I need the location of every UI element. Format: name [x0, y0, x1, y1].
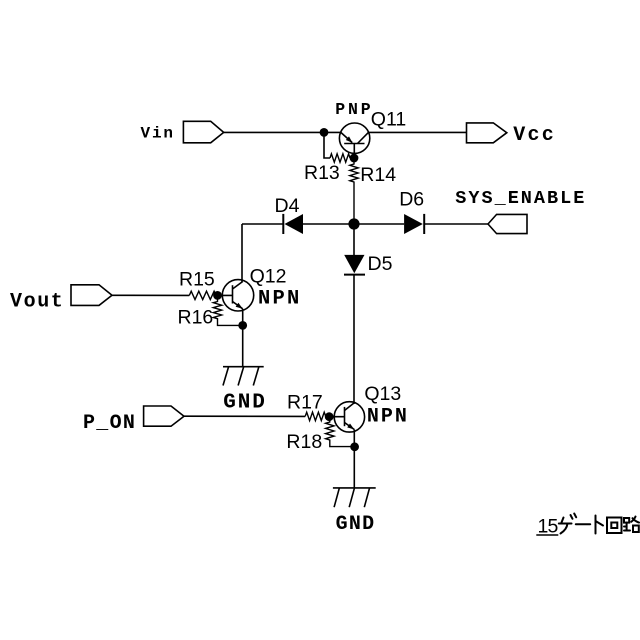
- resistor R18: [326, 417, 355, 447]
- diode D6: [404, 214, 424, 234]
- wire Vout to R15: [112, 294, 189, 296]
- svg-text:Q13: Q13: [364, 383, 401, 405]
- wire Q13 emitter to ground: [353, 430, 355, 488]
- svg-text:R15: R15: [179, 268, 215, 290]
- transistor Q11 (PNP): [339, 123, 369, 158]
- wire P_ON to R17: [184, 415, 305, 417]
- svg-text:Q11: Q11: [371, 108, 406, 130]
- junction node base of Q13: [325, 412, 334, 421]
- wire D4 anode to node: [303, 223, 354, 225]
- diode D4: [283, 214, 303, 234]
- svg-text:Vout: Vout: [10, 290, 64, 313]
- svg-text:R17: R17: [287, 392, 323, 414]
- port P_ON connector: [144, 406, 184, 426]
- svg-text:D5: D5: [368, 253, 393, 275]
- wire Vin to Q11 emitter: [224, 131, 341, 133]
- caption text gate circuit (Japanese): [559, 514, 639, 534]
- resistor R15: [189, 291, 216, 299]
- ground GND2: [333, 488, 376, 507]
- wire D4 cathode to left column: [242, 223, 283, 225]
- transistor Q13 (NPN): [334, 402, 364, 432]
- wire R15 to Q12 base: [216, 294, 233, 296]
- wire Q12 emitter to ground: [242, 309, 244, 367]
- svg-text:Vcc: Vcc: [513, 124, 556, 147]
- port Vcc connector: [467, 123, 507, 143]
- svg-text:GND: GND: [223, 392, 267, 415]
- junction node on Vin wire: [320, 128, 329, 137]
- wire node to D5 anode: [353, 224, 355, 255]
- junction node base of Q12: [213, 291, 222, 300]
- wire node to D6 anode: [354, 223, 404, 225]
- wire D5 cathode to Q13 collector: [353, 275, 355, 404]
- diode D5: [344, 255, 365, 275]
- svg-text:R18: R18: [286, 431, 322, 453]
- junction node Q12 emitter: [238, 321, 247, 330]
- junction node main net: [348, 218, 359, 229]
- svg-text:NPN: NPN: [258, 288, 302, 311]
- svg-text:15: 15: [538, 515, 559, 537]
- wire Q11 collector to Vcc: [368, 131, 466, 133]
- svg-text:D6: D6: [399, 189, 424, 211]
- port SYS_ENABLE connector: [488, 214, 527, 233]
- port Vout connector: [71, 285, 112, 306]
- svg-text:P_ON: P_ON: [83, 412, 136, 435]
- svg-text:NPN: NPN: [367, 405, 409, 428]
- svg-text:R13: R13: [304, 162, 340, 184]
- wire D6 cathode to SYS_ENABLE: [424, 223, 488, 225]
- resistor R14: [350, 158, 358, 224]
- svg-text:SYS_ENABLE: SYS_ENABLE: [455, 188, 586, 209]
- resistor R16: [213, 295, 242, 325]
- junction node Q13 emitter: [350, 442, 359, 451]
- svg-text:PNP: PNP: [335, 100, 373, 119]
- svg-text:Q12: Q12: [250, 265, 287, 287]
- junction node base of Q11: [350, 154, 359, 163]
- resistor R13: [330, 154, 350, 162]
- svg-text:R16: R16: [178, 307, 214, 329]
- resistor R17: [305, 412, 326, 420]
- wire R17 to Q13 base: [326, 416, 345, 418]
- svg-text:GND: GND: [336, 513, 376, 536]
- svg-text:Vin: Vin: [141, 125, 175, 143]
- caption number 15 (underlined): [536, 515, 558, 537]
- ground GND1: [223, 367, 264, 386]
- svg-text:R14: R14: [360, 164, 396, 186]
- wire left column down to Q12 collector: [241, 224, 243, 282]
- port Vin connector: [183, 121, 223, 143]
- wire junction down to R13: [324, 132, 330, 158]
- transistor Q12 (NPN): [222, 280, 253, 311]
- svg-text:D4: D4: [275, 195, 300, 217]
